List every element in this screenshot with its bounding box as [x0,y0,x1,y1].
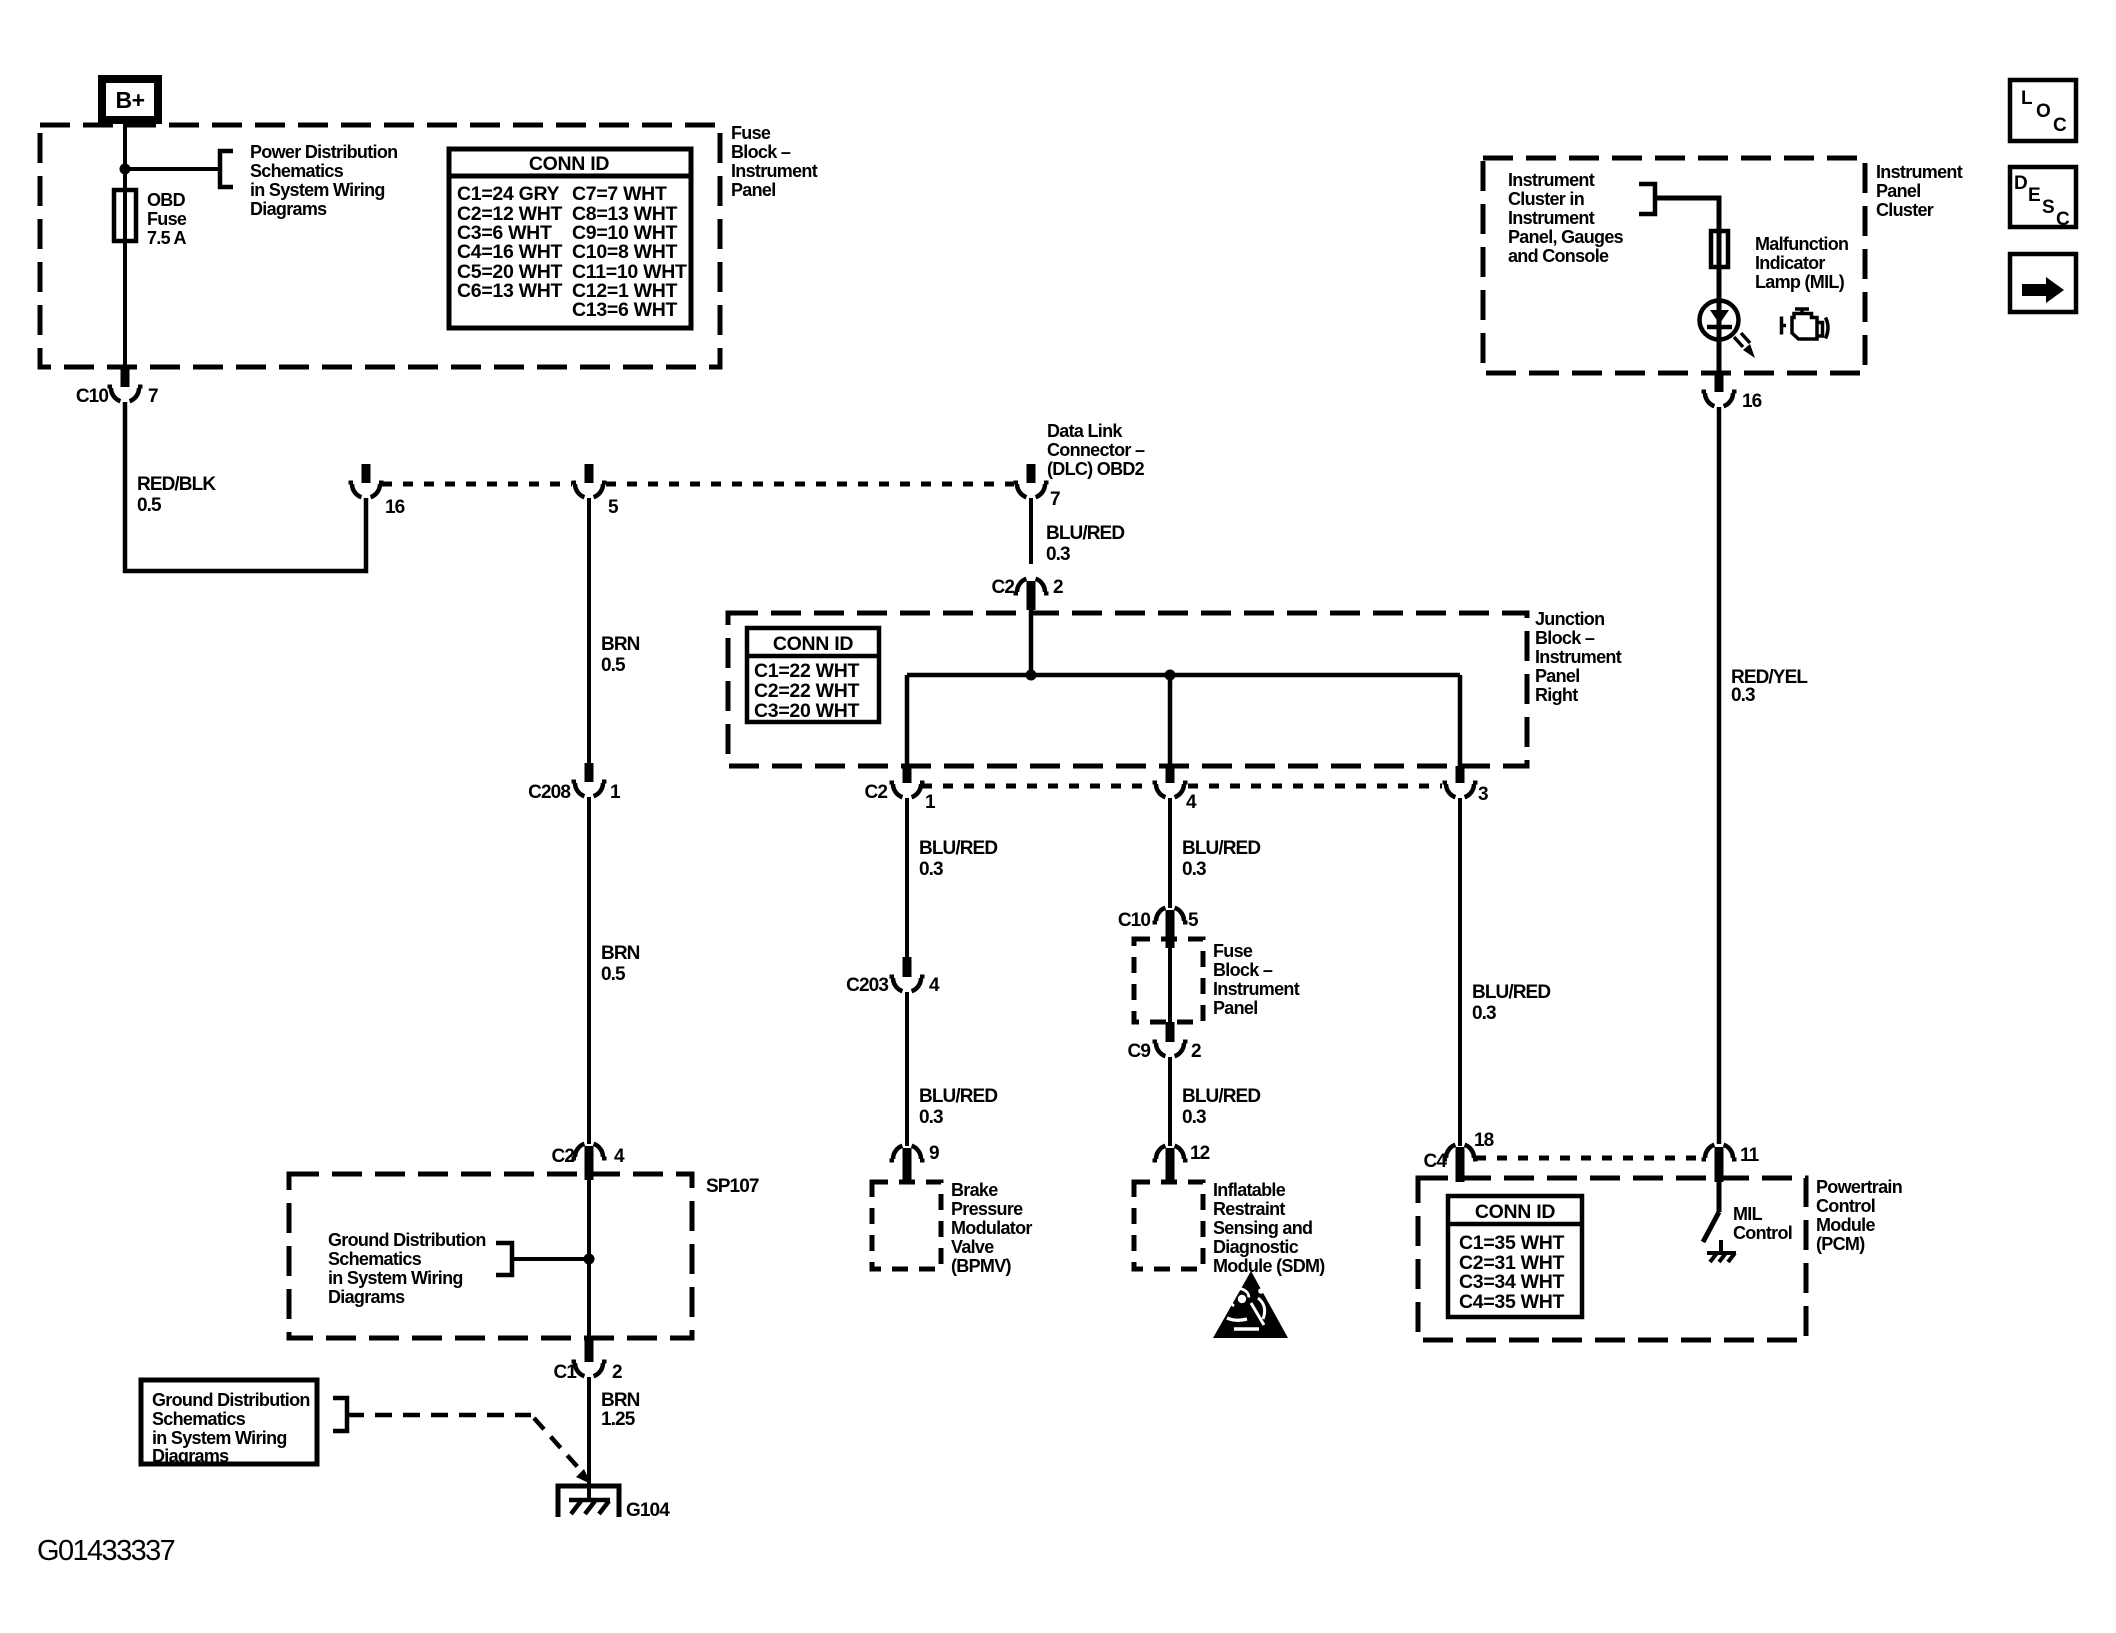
svg-text:C1: C1 [554,1362,578,1383]
wire dashed ground reference with arrow [347,1413,531,1418]
svg-text:Panel: Panel [1535,666,1580,686]
svg-text:Diagnostic: Diagnostic [1213,1237,1299,1257]
svg-text:Connector –: Connector – [1047,440,1145,460]
svg-text:Schematics: Schematics [250,161,344,181]
svg-text:7.5 A: 7.5 A [147,228,187,248]
svg-text:CONN ID: CONN ID [773,633,853,655]
svg-text:Brake: Brake [951,1180,998,1200]
svg-text:MIL: MIL [1733,1204,1763,1224]
svg-text:Right: Right [1535,685,1578,705]
svg-text:C10=8 WHT: C10=8 WHT [572,241,678,263]
icon engine (check engine pictograph) [1782,309,1829,339]
svg-text:Block –: Block – [731,142,791,162]
component box Fuse Block - Instrument Panel (dashed) [40,125,720,367]
svg-text:SP107: SP107 [706,1176,759,1197]
node bus dot 1 [1026,670,1037,681]
connector DLC pin 5 [585,464,594,483]
svg-text:C2=22 WHT: C2=22 WHT [754,680,860,702]
svg-text:Ground Distribution: Ground Distribution [152,1390,310,1410]
connector pin 16 (cluster output) [1715,373,1724,392]
svg-text:0.3: 0.3 [919,1107,943,1128]
svg-text:L: L [2021,88,2033,109]
nav box DESC [2010,167,2076,227]
svg-text:Module (SDM): Module (SDM) [1213,1256,1325,1276]
wire BLU/RED 0.3 from DLC pin 7 [1029,498,1033,564]
svg-text:C1=22 WHT: C1=22 WHT [754,660,860,682]
svg-text:Instrument: Instrument [1876,162,1963,182]
connector C10 pin 5 (fuse block mid) [1166,910,1175,948]
reference bracket instrument cluster feed [1639,184,1655,214]
svg-text:E: E [2028,185,2040,206]
svg-text:Schematics: Schematics [328,1249,422,1269]
component box Junction Block - Instrument Panel Right (dashed) [728,613,1527,766]
svg-text:Instrument: Instrument [731,161,818,181]
svg-text:C6=13 WHT: C6=13 WHT [457,280,563,302]
wire BRN 0.5 from DLC pin 5 [587,498,591,763]
connector table CONN ID fuse block [449,149,691,328]
svg-text:Instrument: Instrument [1213,979,1300,999]
svg-text:0.5: 0.5 [601,964,626,985]
wire to Power Distribution reference bracket [125,167,218,171]
svg-text:C2: C2 [992,577,1015,598]
svg-text:BLU/RED: BLU/RED [1182,1086,1260,1107]
svg-text:BRN: BRN [601,943,640,964]
connector pin 9 (BPMV) [903,1148,912,1182]
svg-text:BRN: BRN [601,634,640,655]
svg-text:C7=7 WHT: C7=7 WHT [572,183,667,205]
connector C203 pin 4 [903,957,912,977]
svg-text:C4=35 WHT: C4=35 WHT [1459,1291,1565,1313]
svg-text:BLU/RED: BLU/RED [1046,523,1124,544]
svg-text:Diagrams: Diagrams [328,1287,405,1307]
svg-text:Fuse: Fuse [731,123,771,143]
svg-text:Fuse: Fuse [147,209,187,229]
svg-text:C: C [2056,209,2070,230]
svg-text:2: 2 [1053,577,1063,598]
connector C1 pin 2 [585,1338,594,1362]
reference bracket Power Distribution [220,151,233,187]
svg-text:Module: Module [1816,1215,1875,1235]
svg-text:Control: Control [1816,1196,1875,1216]
svg-text:Panel: Panel [731,180,776,200]
reference bracket (ground ref) [333,1398,347,1431]
icon airbag warning triangle [1213,1271,1288,1338]
svg-text:Instrument: Instrument [1508,208,1595,228]
svg-text:Panel, Gauges: Panel, Gauges [1508,227,1624,247]
svg-text:18: 18 [1474,1130,1494,1151]
connector C2 pin 4 (into SP107 splice) [585,1146,594,1180]
wire BLU/RED 0.3 to SDM [1168,1057,1172,1146]
svg-text:Fuse: Fuse [1213,941,1253,961]
connector table CONN ID PCM [1448,1196,1582,1317]
svg-text:0.3: 0.3 [1182,1107,1206,1128]
svg-text:C: C [2053,115,2067,136]
svg-text:Lamp (MIL): Lamp (MIL) [1755,272,1845,292]
connector C2 pin 2 (junction block input) [1027,581,1036,610]
svg-text:0.3: 0.3 [919,859,943,880]
svg-text:G01433337: G01433337 [37,1535,175,1567]
wire through SP107 splice [587,1180,591,1344]
component box Instrument Panel Cluster (dashed) [1483,158,1865,373]
svg-text:OBD: OBD [147,190,186,210]
svg-text:CONN ID: CONN ID [1475,1201,1555,1223]
reference box Ground Distribution Schematics (solid) [141,1380,317,1464]
wire RED/BLK 0.5 down and over to DLC pin 16 [125,402,366,571]
svg-text:Pressure: Pressure [951,1199,1023,1219]
wire BLU/RED 0.3 to C203 [905,798,909,958]
connector C10 pin 7 (fuse block output) [121,367,130,387]
node bus dot 2 [1165,670,1176,681]
svg-text:Block –: Block – [1535,628,1595,648]
wire RED/YEL 0.3 cluster to PCM [1717,407,1722,1144]
svg-text:Panel: Panel [1213,998,1258,1018]
connector pin 4 (junction block out mid) [1166,766,1175,783]
svg-text:Diagrams: Diagrams [152,1446,229,1466]
svg-text:C4=16 WHT: C4=16 WHT [457,241,563,263]
wire dotted junction connector face [922,784,1442,789]
svg-text:4: 4 [614,1146,625,1167]
connector pin 11 (PCM MIL control) [1715,1147,1724,1182]
svg-text:5: 5 [608,497,619,518]
svg-text:Diagrams: Diagrams [250,199,327,219]
svg-text:C208: C208 [528,782,570,803]
svg-text:Panel: Panel [1876,181,1921,201]
svg-text:0.5: 0.5 [137,495,162,516]
nav box arrow (next page) [2010,254,2076,312]
wire dotted PCM connector face [1476,1156,1702,1161]
svg-text:O: O [2036,101,2050,122]
svg-text:1: 1 [610,782,621,803]
svg-text:0.3: 0.3 [1046,544,1070,565]
svg-text:C3=34 WHT: C3=34 WHT [1459,1271,1565,1293]
svg-text:in System Wiring: in System Wiring [250,180,385,200]
svg-text:16: 16 [385,497,405,518]
svg-text:C13=6 WHT: C13=6 WHT [572,299,678,321]
svg-text:in System Wiring: in System Wiring [328,1268,463,1288]
svg-text:C10: C10 [76,386,108,407]
svg-text:Modulator: Modulator [951,1218,1032,1238]
svg-text:C2: C2 [865,782,888,803]
reference bracket Ground Distribution (in SP107) [496,1243,512,1275]
wire through mid fuse block [1168,948,1172,1022]
component box Brake Pressure Modulator Valve (dashed) [872,1182,941,1269]
svg-text:C1=35 WHT: C1=35 WHT [1459,1232,1565,1254]
svg-text:Instrument: Instrument [1508,170,1595,190]
node splice junction dot [584,1254,595,1265]
svg-text:4: 4 [1186,792,1197,813]
connector table CONN ID junction block [747,628,879,722]
svg-text:B+: B+ [115,87,144,113]
fuse F1 OBD 7.5 A [114,190,136,241]
connector C2 pin 1 (junction block out left) [903,766,912,783]
svg-text:C9: C9 [1128,1041,1151,1062]
svg-text:Cluster in: Cluster in [1508,189,1584,209]
svg-text:C203: C203 [846,975,888,996]
svg-text:BLU/RED: BLU/RED [919,838,997,859]
svg-text:BLU/RED: BLU/RED [1472,982,1550,1003]
wire BRN 0.5 to C2 [587,797,591,1144]
svg-text:5: 5 [1188,910,1199,931]
svg-text:9: 9 [929,1143,939,1164]
wire to Ground Distribution bracket [512,1257,589,1261]
svg-text:C2: C2 [552,1146,575,1167]
svg-text:12: 12 [1190,1143,1210,1164]
svg-text:(PCM): (PCM) [1816,1234,1865,1254]
svg-text:BLU/RED: BLU/RED [1182,838,1260,859]
svg-text:BRN: BRN [601,1390,640,1411]
svg-text:Data Link: Data Link [1047,421,1123,441]
connector pin 12 (SDM) [1166,1148,1175,1182]
svg-text:Indicator: Indicator [1755,253,1825,273]
connector DLC pin 7 [1027,464,1036,483]
svg-text:Powertrain: Powertrain [1816,1177,1902,1197]
wire BLU/RED 0.3 to PCM C4 [1458,798,1462,1146]
switch MIL Control driver [1717,1182,1722,1212]
svg-text:G104: G104 [626,1500,670,1521]
icon light rays (flash arrow) [1734,333,1750,347]
svg-text:3: 3 [1478,784,1488,805]
svg-text:Instrument: Instrument [1535,647,1622,667]
component box Inflatable Restraint SDM (dashed) [1134,1182,1203,1269]
svg-text:Control: Control [1733,1223,1792,1243]
svg-text:Schematics: Schematics [152,1409,246,1429]
connector C208 pin 1 [585,763,594,782]
connector pin 3 (junction block out right) [1456,766,1465,783]
ground (PCM internal) [1707,1251,1736,1255]
svg-text:1: 1 [925,792,936,813]
svg-text:C1=24 GRY: C1=24 GRY [457,183,560,205]
svg-text:C10: C10 [1118,910,1150,931]
svg-text:7: 7 [148,386,158,407]
svg-text:2: 2 [612,1362,622,1383]
svg-text:0.3: 0.3 [1182,859,1206,880]
wire BLU/RED 0.3 to BPMV [905,992,909,1146]
svg-text:Junction: Junction [1535,609,1604,629]
power symbol B+ battery feed [102,79,158,120]
wire BRN 1.25 to ground [587,1377,591,1500]
connector C9 pin 2 [1166,1022,1175,1042]
svg-text:in System Wiring: in System Wiring [152,1428,287,1448]
svg-text:C4: C4 [1424,1151,1448,1172]
svg-text:and Console: and Console [1508,246,1609,266]
wire BLU/RED 0.3 to fuse block [1168,798,1172,908]
wire junction block internal bus [907,610,1460,766]
ground G104 [558,1486,619,1517]
svg-text:BLU/RED: BLU/RED [919,1086,997,1107]
svg-text:7: 7 [1050,489,1060,510]
svg-text:11: 11 [1740,1145,1760,1166]
svg-text:Power Distribution: Power Distribution [250,142,397,162]
svg-text:Ground Distribution: Ground Distribution [328,1230,486,1250]
LED indicator symbol (MIL) [1700,301,1739,340]
svg-text:Inflatable: Inflatable [1213,1180,1286,1200]
component box Powertrain Control Module (dashed) [1418,1178,1806,1340]
svg-text:(DLC) OBD2: (DLC) OBD2 [1047,459,1145,479]
nav box LOC [2010,80,2076,141]
svg-text:(BPMV): (BPMV) [951,1256,1011,1276]
wire filament to LED [1717,267,1722,373]
svg-text:0.3: 0.3 [1472,1003,1496,1024]
svg-text:Restraint: Restraint [1213,1199,1285,1219]
svg-text:Valve: Valve [951,1237,994,1257]
connector DLC pin 16 [362,464,371,483]
svg-text:D: D [2014,173,2027,194]
svg-text:Cluster: Cluster [1876,200,1934,220]
svg-text:Sensing and: Sensing and [1213,1218,1312,1238]
svg-text:C3=20 WHT: C3=20 WHT [754,700,860,722]
wire cluster feed to MIL lamp [1655,198,1719,231]
svg-text:0.5: 0.5 [601,655,626,676]
svg-text:Block –: Block – [1213,960,1273,980]
splice box SP107 (dashed) [289,1174,692,1338]
svg-text:1.25: 1.25 [601,1409,636,1430]
lamp filament (MIL bulb) [1711,231,1728,267]
wire dotted DLC internal bus [382,482,1014,487]
svg-text:0.3: 0.3 [1731,685,1755,706]
svg-text:4: 4 [929,975,940,996]
svg-text:S: S [2042,197,2054,218]
wire B+ down through OBD fuse to C10 connector [123,124,127,367]
node junction dot at fuse feed [120,164,131,175]
component box Fuse Block - Instrument Panel mid (dashed) [1134,939,1203,1022]
connector C4 pin 18 (PCM) [1456,1147,1465,1182]
svg-text:Malfunction: Malfunction [1755,234,1848,254]
svg-text:CONN ID: CONN ID [529,153,609,175]
svg-text:16: 16 [1742,391,1762,412]
svg-text:2: 2 [1191,1041,1201,1062]
svg-text:RED/BLK: RED/BLK [137,474,216,495]
